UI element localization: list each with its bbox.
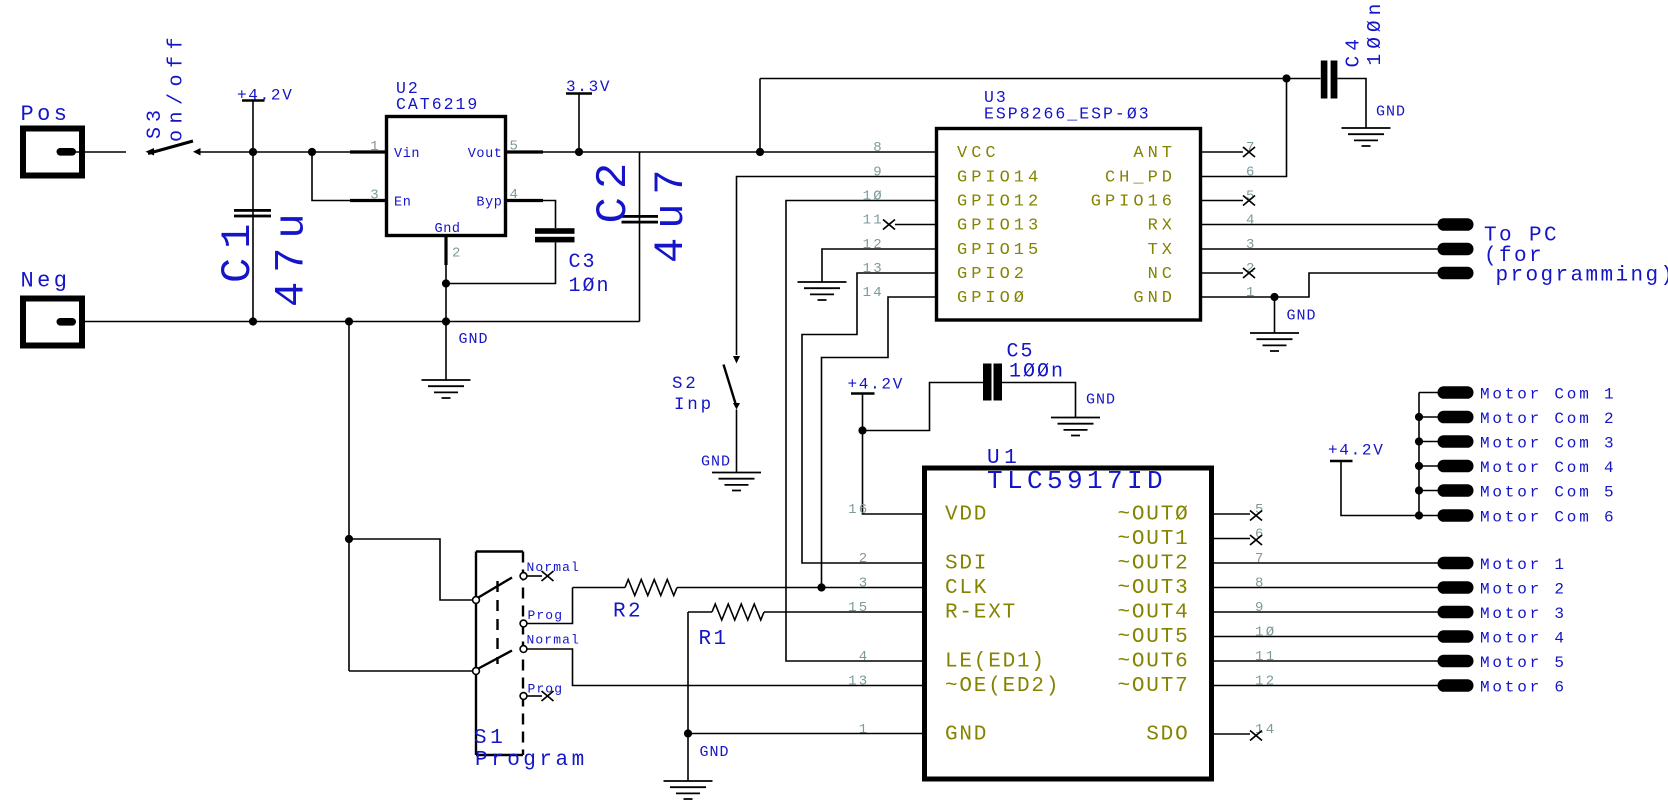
svg-text:1Ø: 1Ø bbox=[1255, 625, 1276, 641]
svg-text:9: 9 bbox=[1255, 600, 1266, 616]
wire CH_PD riser bbox=[1202, 79, 1287, 177]
svg-text:R2: R2 bbox=[613, 601, 643, 624]
wire OUT4 to Motor 3 bbox=[1214, 611, 1438, 613]
junction S1 pole 1 bbox=[345, 535, 353, 543]
pad Motor Com 1 bbox=[1438, 386, 1474, 399]
svg-text:GPIO13: GPIO13 bbox=[957, 217, 1042, 236]
pad Motor Com 2 bbox=[1438, 411, 1474, 424]
pad Motor 5 bbox=[1438, 655, 1474, 668]
wire Pos to S3 bbox=[75, 151, 126, 153]
junction C3 return bbox=[442, 279, 450, 287]
junction S1 feed bbox=[345, 317, 353, 325]
junction GPIO0 / CLK bbox=[817, 583, 825, 591]
svg-text:VCC: VCC bbox=[957, 144, 1000, 163]
wire C3 to Gnd junction bbox=[446, 243, 556, 284]
svg-text:C4: C4 bbox=[1343, 34, 1365, 67]
junction com 4 bbox=[1415, 462, 1423, 470]
resistor R2 bbox=[625, 580, 677, 596]
svg-text:SDI: SDI bbox=[945, 553, 988, 576]
wire C5 to ground bbox=[1002, 383, 1076, 418]
svg-text:1: 1 bbox=[859, 722, 870, 738]
wire En branch bbox=[312, 152, 352, 201]
wire OUT6 to Motor 5 bbox=[1214, 660, 1438, 662]
svg-text:C1: C1 bbox=[214, 215, 262, 283]
wire GPIO15 to ground bbox=[822, 249, 935, 282]
svg-text:Motor Com 6: Motor Com 6 bbox=[1480, 509, 1616, 527]
svg-text:TLC5917ID: TLC5917ID bbox=[987, 466, 1167, 496]
svg-text:S1: S1 bbox=[474, 727, 506, 750]
wire to S1 pole 2 bbox=[349, 670, 473, 672]
svg-text:Motor Com 2: Motor Com 2 bbox=[1480, 410, 1616, 428]
ground U3 bbox=[1250, 333, 1299, 351]
pin NC stub bbox=[1202, 272, 1243, 274]
svg-text:1Ø: 1Ø bbox=[863, 189, 884, 205]
pin OUT1 stub bbox=[1214, 538, 1250, 540]
pin GPIO13 stub bbox=[895, 224, 935, 226]
no-connect GPIO16 bbox=[1243, 196, 1255, 206]
svg-text:on/off: on/off bbox=[166, 31, 189, 142]
pin Prog2 stub bbox=[527, 695, 542, 697]
svg-text:3: 3 bbox=[1246, 237, 1257, 253]
svg-text:GPIO12: GPIO12 bbox=[957, 193, 1042, 212]
wire +4.2V vertical through C1 bbox=[252, 101, 254, 322]
wire com 1 bbox=[1419, 392, 1438, 394]
pin Normal1 stub bbox=[527, 575, 542, 577]
op-amp U1 TLC5917ID body bbox=[925, 468, 1212, 779]
ground S2 bbox=[712, 473, 761, 491]
svg-text:LE(ED1): LE(ED1) bbox=[945, 651, 1046, 674]
pin SDO stub bbox=[1214, 733, 1250, 735]
no-connect OUT0 bbox=[1250, 511, 1262, 521]
wire com 4 bbox=[1419, 465, 1438, 467]
wire to ground bbox=[1274, 297, 1276, 333]
svg-text:3.3V: 3.3V bbox=[566, 78, 611, 96]
svg-text:TX: TX bbox=[1148, 241, 1176, 260]
resistor R1 bbox=[712, 604, 764, 620]
wire R1 to ground node bbox=[687, 612, 689, 734]
capacitor C2 bbox=[622, 215, 659, 218]
wire R2 to CLK bbox=[677, 587, 922, 589]
svg-text:GPIO14: GPIO14 bbox=[957, 169, 1042, 188]
junction U3 GND bbox=[1270, 293, 1278, 301]
svg-text:14: 14 bbox=[863, 285, 884, 301]
junction com 2 bbox=[1415, 413, 1423, 421]
ground R1/U1 bbox=[664, 781, 713, 799]
svg-text:Motor Com 4: Motor Com 4 bbox=[1480, 459, 1616, 477]
connector Neg bbox=[23, 299, 82, 346]
pin GPIO16 stub bbox=[1202, 200, 1243, 202]
wire S1 feed vertical bbox=[348, 322, 350, 672]
svg-text:13: 13 bbox=[863, 261, 884, 277]
wire +4.2V to VDD bbox=[863, 394, 923, 515]
pad Motor 1 bbox=[1438, 557, 1474, 570]
svg-text:3: 3 bbox=[370, 188, 381, 204]
svg-text:GPIOØ: GPIOØ bbox=[957, 289, 1028, 308]
svg-text:CAT6219: CAT6219 bbox=[396, 95, 479, 114]
pad Motor Com 3 bbox=[1438, 435, 1474, 448]
wire com 2 bbox=[1419, 416, 1438, 418]
svg-text:6: 6 bbox=[1246, 165, 1257, 181]
ground C5 bbox=[1051, 418, 1100, 436]
svg-text:~OUT6: ~OUT6 bbox=[1117, 651, 1189, 674]
svg-text:Motor 1: Motor 1 bbox=[1480, 556, 1567, 574]
wire C4 to ground bbox=[1338, 79, 1367, 129]
svg-text:GPIO15: GPIO15 bbox=[957, 241, 1042, 260]
svg-text:Inp: Inp bbox=[674, 395, 714, 415]
switch S2 bbox=[733, 356, 740, 364]
pin 3 En stub bbox=[350, 199, 386, 202]
wire prog pad 3 to ground bbox=[1275, 273, 1438, 297]
switch S3 bbox=[146, 148, 155, 156]
svg-text:Gnd: Gnd bbox=[435, 222, 461, 237]
svg-text:Motor Com 3: Motor Com 3 bbox=[1480, 435, 1616, 453]
svg-text:ANT: ANT bbox=[1133, 144, 1176, 163]
capacitor C3 bbox=[535, 228, 575, 234]
switch S1 contact bbox=[520, 693, 527, 700]
svg-text:Neg: Neg bbox=[21, 269, 71, 294]
svg-text:GPIO2: GPIO2 bbox=[957, 265, 1028, 284]
pad Motor 2 bbox=[1438, 581, 1474, 594]
switch S1 coupler dashed bbox=[496, 581, 498, 664]
wire Neg rail bbox=[85, 321, 640, 323]
svg-text:~OUT5: ~OUT5 bbox=[1117, 626, 1189, 649]
pin 2 Gnd stub bbox=[444, 237, 447, 265]
pin ANT stub bbox=[1202, 151, 1243, 153]
op-amp U2 CAT6219 body bbox=[387, 117, 506, 236]
wire to C5 bbox=[863, 383, 984, 431]
svg-text:4: 4 bbox=[510, 187, 521, 203]
pad Motor Com 4 bbox=[1438, 460, 1474, 473]
svg-text:C3: C3 bbox=[569, 251, 597, 274]
pin 1 Vin stub bbox=[350, 150, 386, 153]
svg-text:programming): programming) bbox=[1496, 265, 1668, 288]
connector Pos bbox=[23, 129, 82, 176]
svg-text:Motor 5: Motor 5 bbox=[1480, 654, 1567, 672]
no-connect ANT bbox=[1243, 147, 1255, 157]
svg-text:1: 1 bbox=[1246, 285, 1257, 301]
svg-text:GND: GND bbox=[945, 724, 988, 747]
svg-text:15: 15 bbox=[848, 600, 869, 616]
svg-text:~OUT7: ~OUT7 bbox=[1117, 675, 1189, 698]
wire com bus bbox=[1418, 393, 1420, 516]
wire OUT2 to Motor 1 bbox=[1214, 562, 1438, 564]
capacitor C1 bbox=[234, 209, 271, 212]
wire RX to pad bbox=[1202, 224, 1438, 226]
junction U2 Gnd bbox=[442, 317, 450, 325]
junction C1 bottom bbox=[249, 317, 257, 325]
svg-text:1ØØn: 1ØØn bbox=[1364, 0, 1386, 66]
junction CH_PD riser bbox=[1282, 74, 1290, 82]
svg-text:GND: GND bbox=[701, 454, 731, 471]
no-connect SDO bbox=[1250, 731, 1262, 741]
svg-text:RX: RX bbox=[1148, 217, 1176, 236]
svg-text:S2: S2 bbox=[672, 374, 699, 394]
svg-text:+4.2V: +4.2V bbox=[848, 376, 905, 394]
svg-text:~OUTØ: ~OUTØ bbox=[1117, 504, 1189, 527]
svg-text:ESP8266_ESP-Ø3: ESP8266_ESP-Ø3 bbox=[984, 105, 1151, 124]
capacitor C4 bbox=[1321, 61, 1328, 99]
switch S1 contact bbox=[520, 646, 527, 653]
svg-text:R-EXT: R-EXT bbox=[945, 602, 1017, 625]
wire Vout 3.3V rail bbox=[543, 151, 935, 153]
ground GPIO15 bbox=[798, 282, 847, 300]
svg-text:2: 2 bbox=[452, 246, 463, 262]
svg-text:11: 11 bbox=[1255, 649, 1276, 665]
switch S1 contact bbox=[473, 668, 480, 675]
wire com 5 bbox=[1419, 490, 1438, 492]
wire through C2 bbox=[639, 152, 641, 322]
svg-text:Prog: Prog bbox=[528, 608, 564, 623]
svg-text:3: 3 bbox=[859, 576, 870, 592]
no-connect OUT1 bbox=[1250, 535, 1262, 545]
no-connect Prog2 bbox=[542, 691, 554, 701]
svg-text:12: 12 bbox=[863, 237, 884, 253]
switch S1 right rail dashed bbox=[522, 552, 524, 756]
svg-text:14: 14 bbox=[1255, 722, 1276, 738]
pad Motor 6 bbox=[1438, 679, 1474, 692]
ground under C4 bbox=[1342, 128, 1391, 146]
switch S1 arm 1 bbox=[478, 578, 513, 599]
no-connect NC bbox=[1243, 268, 1255, 278]
svg-text:1: 1 bbox=[370, 139, 381, 155]
wire S2 to ground bbox=[736, 410, 738, 473]
svg-text:GND: GND bbox=[700, 744, 730, 761]
pin OUT0 stub bbox=[1214, 513, 1250, 515]
svg-text:+4.2V: +4.2V bbox=[1328, 442, 1385, 460]
switch S1 body bbox=[476, 552, 523, 756]
capacitor C5 bbox=[983, 364, 992, 401]
ground under U2 bbox=[422, 380, 471, 398]
switch S1 arm 2 bbox=[478, 651, 513, 670]
svg-text:9: 9 bbox=[873, 165, 884, 181]
wire top rail to C4 bbox=[760, 78, 1321, 80]
pad Motor 4 bbox=[1438, 630, 1474, 643]
svg-text:8: 8 bbox=[1255, 576, 1266, 592]
svg-text:7: 7 bbox=[1255, 551, 1266, 567]
svg-text:1Øn: 1Øn bbox=[569, 275, 611, 298]
svg-text:Byp: Byp bbox=[476, 196, 502, 211]
pad Motor Com 5 bbox=[1438, 484, 1474, 497]
svg-text:Vin: Vin bbox=[394, 147, 420, 162]
wire R1 left lead bbox=[688, 611, 712, 613]
wire GPIO0 to CLK bbox=[822, 297, 936, 588]
pad To PC 1 bbox=[1438, 218, 1474, 231]
svg-text:Normal: Normal bbox=[527, 560, 580, 575]
svg-text:Motor 6: Motor 6 bbox=[1480, 679, 1567, 697]
wire Prog1 to R2 bbox=[527, 588, 573, 624]
svg-text:2: 2 bbox=[859, 551, 870, 567]
switch S1 contact bbox=[473, 597, 480, 604]
svg-text:~OE(ED2): ~OE(ED2) bbox=[945, 675, 1060, 698]
svg-text:VDD: VDD bbox=[945, 504, 988, 527]
wire U2 Gnd down bbox=[445, 265, 447, 380]
svg-text:S3: S3 bbox=[144, 105, 167, 139]
svg-text:Normal: Normal bbox=[527, 633, 580, 648]
wire U3 GND bbox=[1202, 296, 1275, 298]
junction +4.2V / Vin rail bbox=[249, 148, 257, 156]
pad To PC 3 bbox=[1438, 267, 1474, 280]
svg-text:4: 4 bbox=[859, 649, 870, 665]
svg-text:16: 16 bbox=[848, 502, 869, 518]
svg-text:GND: GND bbox=[1086, 392, 1116, 409]
junction 3.3V symbol bbox=[575, 148, 583, 156]
Neg pin pad bbox=[57, 318, 77, 326]
wire GPIO14 to S2 bbox=[737, 177, 936, 356]
wire R1 to R-EXT bbox=[764, 611, 922, 613]
wire OUT5 to Motor 4 bbox=[1214, 636, 1438, 638]
svg-text:Motor 4: Motor 4 bbox=[1480, 630, 1567, 648]
junction R1 / GND bbox=[684, 729, 692, 737]
pin 4 Byp stub bbox=[507, 199, 543, 202]
junction com 3 bbox=[1415, 437, 1423, 445]
wire 3.3V drop bbox=[578, 94, 580, 153]
wire down to ground bbox=[687, 734, 689, 782]
svg-text:~OUT3: ~OUT3 bbox=[1117, 577, 1189, 600]
svg-text:+4.2V: +4.2V bbox=[237, 87, 294, 105]
power +4.2V motors bbox=[1330, 460, 1353, 462]
svg-text:NC: NC bbox=[1148, 265, 1176, 284]
junction C5 branch bbox=[858, 426, 866, 434]
wire OUT7 to Motor 6 bbox=[1214, 685, 1438, 687]
svg-text:GND: GND bbox=[1376, 104, 1406, 121]
wire OUT3 to Motor 2 bbox=[1214, 587, 1438, 589]
svg-text:SDO: SDO bbox=[1146, 724, 1189, 747]
junction top rail bbox=[756, 148, 764, 156]
wire S3 to U2 Vin bbox=[200, 151, 353, 153]
wire com 6 bbox=[1419, 515, 1438, 517]
svg-text:~OUT1: ~OUT1 bbox=[1117, 528, 1189, 551]
svg-text:CH_PD: CH_PD bbox=[1105, 169, 1176, 188]
svg-text:GND: GND bbox=[1287, 308, 1317, 325]
wire com 3 bbox=[1419, 441, 1438, 443]
svg-text:11: 11 bbox=[863, 213, 884, 229]
wire to S1 pole 1 bbox=[349, 539, 473, 600]
svg-text:Motor 2: Motor 2 bbox=[1480, 581, 1567, 599]
svg-text:~OUT4: ~OUT4 bbox=[1117, 602, 1189, 625]
no-connect Normal1 bbox=[542, 571, 554, 581]
svg-text:En: En bbox=[394, 196, 411, 211]
no-connect GPIO13 bbox=[883, 220, 895, 230]
power +4.2V bbox=[242, 99, 265, 101]
pad Motor 3 bbox=[1438, 606, 1474, 619]
switch S1 contact bbox=[520, 620, 527, 627]
svg-text:4: 4 bbox=[1246, 213, 1257, 229]
pin 5 Vout stub bbox=[507, 150, 543, 153]
Pos pin pad bbox=[57, 148, 77, 156]
wire top rail riser bbox=[759, 79, 761, 153]
svg-text:GND: GND bbox=[1133, 289, 1176, 308]
wire GPIO2 to SDI bbox=[802, 273, 935, 563]
svg-text:CLK: CLK bbox=[945, 577, 988, 600]
svg-text:GPIO16: GPIO16 bbox=[1091, 193, 1176, 212]
pad Motor Com 6 bbox=[1438, 509, 1474, 522]
op-amp U3 ESP8266_ESP-03 body bbox=[937, 129, 1201, 321]
svg-text:Motor Com 5: Motor Com 5 bbox=[1480, 484, 1616, 502]
svg-text:5: 5 bbox=[510, 139, 521, 155]
wire TX to pad bbox=[1202, 248, 1438, 250]
svg-text:Program: Program bbox=[475, 749, 588, 772]
wire GPIO12 to LE bbox=[786, 201, 935, 662]
svg-text:Pos: Pos bbox=[21, 102, 71, 127]
svg-text:GND: GND bbox=[459, 331, 489, 348]
svg-text:~OUT2: ~OUT2 bbox=[1117, 553, 1189, 576]
svg-text:12: 12 bbox=[1255, 674, 1276, 690]
power +4.2V U1 bbox=[851, 392, 875, 394]
svg-text:8: 8 bbox=[873, 140, 884, 156]
svg-text:R1: R1 bbox=[699, 628, 729, 651]
wire Byp to C3 bbox=[543, 201, 556, 229]
svg-text:C2: C2 bbox=[589, 155, 639, 224]
svg-text:13: 13 bbox=[848, 674, 869, 690]
switch S1 contact bbox=[520, 573, 527, 580]
wire Normal2 to OE bbox=[527, 649, 922, 686]
svg-text:Motor 3: Motor 3 bbox=[1480, 605, 1567, 623]
junction En branch bbox=[308, 148, 316, 156]
wire to R2 bbox=[573, 587, 626, 589]
svg-text:Vout: Vout bbox=[468, 147, 503, 162]
power 3.3V bbox=[566, 92, 592, 94]
svg-text:47u: 47u bbox=[268, 204, 316, 307]
wire ground to U1 GND pin bbox=[688, 733, 922, 735]
svg-text:1ØØn: 1ØØn bbox=[1009, 361, 1065, 384]
svg-text:4u7: 4u7 bbox=[647, 160, 695, 263]
pad To PC 2 bbox=[1438, 243, 1474, 256]
wire +4.2V to com bus bbox=[1341, 461, 1419, 516]
svg-text:Motor Com 1: Motor Com 1 bbox=[1480, 386, 1616, 404]
junction com 5 bbox=[1415, 486, 1423, 494]
junction com 6 bbox=[1415, 511, 1423, 519]
